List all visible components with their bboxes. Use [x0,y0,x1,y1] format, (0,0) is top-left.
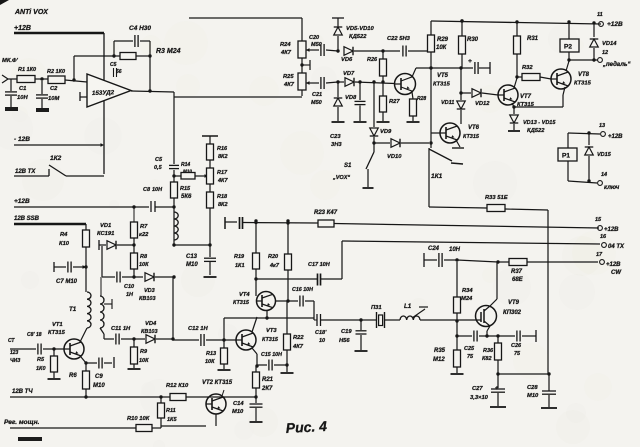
svg-text:- 12В: - 12В [14,136,30,143]
svg-text:С8: С8 [143,187,151,193]
svg-text:12В ТЧ: 12В ТЧ [12,389,33,395]
svg-text:C21: C21 [312,92,322,98]
svg-text:R27: R27 [389,99,400,105]
svg-text:C5: C5 [155,157,163,163]
svg-text:VT8: VT8 [578,72,590,78]
svg-text:R4: R4 [60,232,68,238]
svg-text:VT3: VT3 [266,328,277,334]
svg-text:C13: C13 [186,254,198,260]
svg-text:R5: R5 [37,357,45,363]
svg-text:М10: М10 [527,393,539,399]
svg-text:КП302: КП302 [503,310,522,316]
svg-text:VD9: VD9 [380,129,392,135]
svg-text:L1: L1 [404,303,412,310]
svg-text:10Н: 10Н [152,187,163,193]
svg-text:+12В: +12В [604,227,619,233]
svg-text:ключ: ключ [604,185,620,191]
svg-text:R19: R19 [234,254,245,260]
svg-text:КТ315: КТ315 [574,81,592,87]
svg-text:10К: 10К [436,45,448,51]
svg-text:R28: R28 [417,96,426,102]
svg-text:2К7: 2К7 [261,386,273,392]
svg-text:14: 14 [601,172,607,178]
svg-text:R10 10К: R10 10К [127,416,150,422]
svg-text:R29: R29 [437,37,449,43]
svg-text:5К6: 5К6 [181,194,192,200]
svg-text:С15 10Н: С15 10Н [261,352,282,358]
svg-text:КТ315: КТ315 [262,337,279,343]
svg-text:4К7: 4К7 [217,178,228,184]
svg-text:+12В: +12В [608,134,623,140]
svg-text:+12В: +12В [606,262,621,268]
svg-text:VT1: VT1 [52,322,63,328]
svg-text:1К1: 1К1 [235,263,245,269]
svg-text:R9: R9 [140,349,148,355]
svg-text:КВ103: КВ103 [141,329,158,335]
svg-text:VD5-VD10: VD5-VD10 [346,26,374,32]
svg-text:10Н: 10Н [449,247,461,253]
svg-text:КТ315: КТ315 [463,134,480,140]
svg-text:C22 5Н3: C22 5Н3 [387,36,411,42]
svg-text:С17 10Н: С17 10Н [308,262,331,268]
svg-text:R15: R15 [180,186,191,192]
svg-text:С23: С23 [330,134,341,140]
svg-text:VD14: VD14 [602,41,617,47]
svg-text:04 ТХ: 04 ТХ [608,244,625,250]
svg-text:R16: R16 [217,146,228,152]
svg-text:1К5: 1К5 [167,417,177,423]
svg-text:153УД2: 153УД2 [92,89,115,97]
svg-text:R30: R30 [467,37,479,43]
svg-text:Т1: Т1 [69,306,77,313]
svg-text:68Е: 68Е [512,277,524,283]
svg-text:4К7: 4К7 [283,82,295,88]
svg-text:R11: R11 [166,408,176,414]
svg-text:10К: 10К [139,358,149,364]
svg-text:ANTi VOX: ANTi VOX [14,9,49,16]
svg-text:С8' 18: С8' 18 [27,332,42,338]
svg-text:М50: М50 [311,42,322,48]
svg-text:12В ТХ: 12В ТХ [15,169,36,175]
svg-text:123: 123 [10,350,19,356]
svg-text:C10: C10 [124,284,134,290]
svg-text:R2 1К0: R2 1К0 [47,69,65,75]
svg-text:VD4: VD4 [145,321,157,327]
svg-text:56: 56 [116,69,122,75]
svg-text:C7 М10: C7 М10 [56,279,78,285]
svg-text:R21: R21 [262,377,274,383]
svg-text:75: 75 [467,354,474,360]
svg-text:17: 17 [596,252,603,258]
svg-text:VD1: VD1 [100,223,111,229]
svg-text:0,5: 0,5 [154,165,163,171]
svg-text:C28: C28 [527,385,538,391]
svg-text:М10: М10 [232,409,244,415]
svg-text:+12В: +12В [607,21,623,28]
svg-text:15: 15 [595,217,602,223]
svg-text:М10: М10 [93,383,105,389]
svg-text:12: 12 [602,50,608,56]
svg-text:C25: C25 [464,346,475,352]
svg-text:16: 16 [600,234,607,240]
svg-text:Рис. 4: Рис. 4 [285,418,327,436]
svg-text:R31: R31 [527,36,539,42]
svg-text:C11 1Н: C11 1Н [111,326,131,332]
svg-text:4к7: 4к7 [269,263,280,269]
svg-text:11: 11 [597,12,603,18]
svg-text:VD13 - VD15: VD13 - VD15 [523,120,556,126]
svg-text:R23 К47: R23 К47 [314,210,338,216]
svg-text:R1 1К0: R1 1К0 [18,67,36,73]
svg-text:VT6: VT6 [468,125,480,131]
svg-text:12В SSB: 12В SSB [14,216,40,222]
svg-text:R14: R14 [181,162,190,168]
svg-text:Н56: Н56 [339,338,350,344]
svg-text:С27: С27 [472,386,483,392]
svg-text:+12В: +12В [14,25,31,32]
svg-text:10: 10 [319,338,325,344]
svg-text:к22: к22 [139,232,149,238]
svg-text:VD8: VD8 [345,95,357,101]
svg-text:3,3×10: 3,3×10 [470,395,489,401]
svg-text:+: + [495,386,499,392]
svg-text:C5: C5 [110,62,117,68]
svg-text:М12: М12 [433,357,445,363]
svg-text:R18: R18 [217,194,228,200]
svg-text:„педаль“: „педаль“ [602,62,631,68]
svg-text:Р1: Р1 [562,153,570,160]
svg-text:VD3: VD3 [144,288,155,294]
svg-text:R32: R32 [522,65,533,71]
svg-text:М50: М50 [311,100,322,106]
svg-text:VD11: VD11 [441,100,454,106]
svg-text:S1: S1 [344,163,352,169]
svg-text:C1: C1 [19,86,26,92]
svg-text:К10: К10 [59,241,70,247]
svg-text:C4 Н30: C4 Н30 [129,25,151,32]
svg-text:C19: C19 [341,329,352,335]
svg-text:C9: C9 [95,374,103,380]
svg-text:СТ: СТ [8,338,15,344]
svg-text:4К7: 4К7 [292,344,304,350]
svg-text:8К2: 8К2 [218,202,228,208]
svg-text:R22: R22 [293,335,304,341]
svg-text:VT5: VT5 [437,73,449,79]
svg-text:10М: 10М [48,96,59,102]
svg-text:1Н: 1Н [126,292,134,298]
svg-text:10К: 10К [205,359,215,365]
svg-text:VD6: VD6 [341,57,353,63]
svg-text:C20: C20 [309,35,319,41]
svg-text:R33 51Е: R33 51Е [485,195,509,201]
svg-text:К82: К82 [482,356,492,362]
svg-text:C2: C2 [50,86,58,92]
svg-text:75: 75 [514,351,521,357]
svg-text:13: 13 [599,123,605,129]
svg-text:4К7: 4К7 [280,50,292,56]
svg-text:1К0: 1К0 [36,366,46,372]
svg-text:1К1: 1К1 [431,173,443,180]
svg-text:КД522: КД522 [349,34,367,40]
svg-text:КД522: КД522 [527,128,545,134]
svg-text:VT9: VT9 [508,300,520,306]
svg-text:R24: R24 [280,42,291,48]
svg-text:8К2: 8К2 [218,154,228,160]
svg-text:R37: R37 [511,269,523,275]
svg-text:VT4: VT4 [239,292,250,298]
svg-text:КТ315: КТ315 [233,300,250,306]
svg-text:VD12: VD12 [475,101,490,107]
svg-text:„VOX“: „VOX“ [332,175,350,181]
svg-text:+12В: +12В [14,198,30,205]
svg-text:C12 1Н: C12 1Н [188,326,208,332]
svg-text:3Н3: 3Н3 [331,142,342,148]
svg-text:R7: R7 [140,224,148,230]
svg-text:R12 К10: R12 К10 [166,383,189,389]
svg-text:М10: М10 [186,262,198,268]
svg-text:VD15: VD15 [597,152,612,158]
svg-text:МК.Ф': МК.Ф' [2,58,19,64]
svg-text:КТ315: КТ315 [48,330,66,336]
svg-text:C14: C14 [233,401,244,407]
svg-text:R3 М24: R3 М24 [156,48,181,55]
svg-text:CW: CW [611,270,622,276]
svg-text:+: + [468,58,472,65]
svg-text:10К: 10К [139,262,149,268]
svg-text:R8: R8 [140,254,148,260]
svg-text:VD7: VD7 [343,71,355,77]
svg-text:R35: R35 [434,348,446,354]
svg-text:VT7: VT7 [520,94,532,100]
svg-text:Р2: Р2 [564,44,572,51]
svg-text:R25: R25 [283,74,294,80]
svg-text:С18': С18' [315,330,327,336]
svg-text:КВ103: КВ103 [139,296,156,302]
svg-text:С16 10Н: С16 10Н [292,287,313,293]
svg-text:R34: R34 [462,288,473,294]
svg-text:R6: R6 [69,373,77,379]
svg-text:1К2: 1К2 [50,155,62,162]
svg-text:П31: П31 [371,305,382,311]
svg-text:10Н: 10Н [17,95,28,101]
svg-text:C24: C24 [428,246,440,252]
svg-text:VD10: VD10 [387,154,402,160]
svg-text:R13: R13 [206,351,216,357]
svg-text:ЧИЗ: ЧИЗ [10,358,21,364]
svg-text:КС191: КС191 [97,231,114,237]
svg-text:VT2 КТ315: VT2 КТ315 [202,380,233,386]
svg-text:R26: R26 [367,57,378,63]
svg-text:КТ315: КТ315 [433,82,451,88]
svg-text:М10: М10 [183,169,192,174]
svg-text:R36: R36 [483,348,494,354]
svg-text:C26: C26 [511,343,522,349]
svg-text:R20: R20 [268,254,278,260]
svg-text:R17: R17 [217,170,228,176]
svg-text:М24: М24 [461,296,473,302]
svg-text:Рег. мощн.: Рег. мощн. [4,419,40,426]
